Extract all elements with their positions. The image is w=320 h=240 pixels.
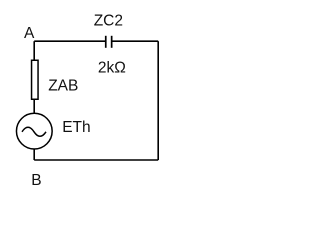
ac source ETh [16,113,52,149]
wire top-left to capacitor [34,40,105,42]
resistor ZAB [32,60,39,99]
svg-text:B: B [31,172,41,189]
label ZAB [48,78,78,95]
svg-text:ZAB: ZAB [48,78,78,95]
wire right side [157,41,159,160]
wire source to bottom [33,150,35,161]
wire capacitor to top-right corner [112,40,158,42]
node A [24,25,35,42]
svg-text:ZC2: ZC2 [94,12,123,29]
capacitor ZC2 [106,36,112,48]
svg-text:ETh: ETh [62,119,90,136]
wire node A down to resistor [33,41,35,59]
svg-text:A: A [24,25,35,42]
label ZC2 [94,12,123,29]
wire resistor to source [33,100,35,113]
svg-text:2kΩ: 2kΩ [98,60,126,77]
wire bottom [34,159,158,161]
value label 2kΩ [98,60,126,77]
label ETh [62,119,90,136]
node B [31,172,41,189]
